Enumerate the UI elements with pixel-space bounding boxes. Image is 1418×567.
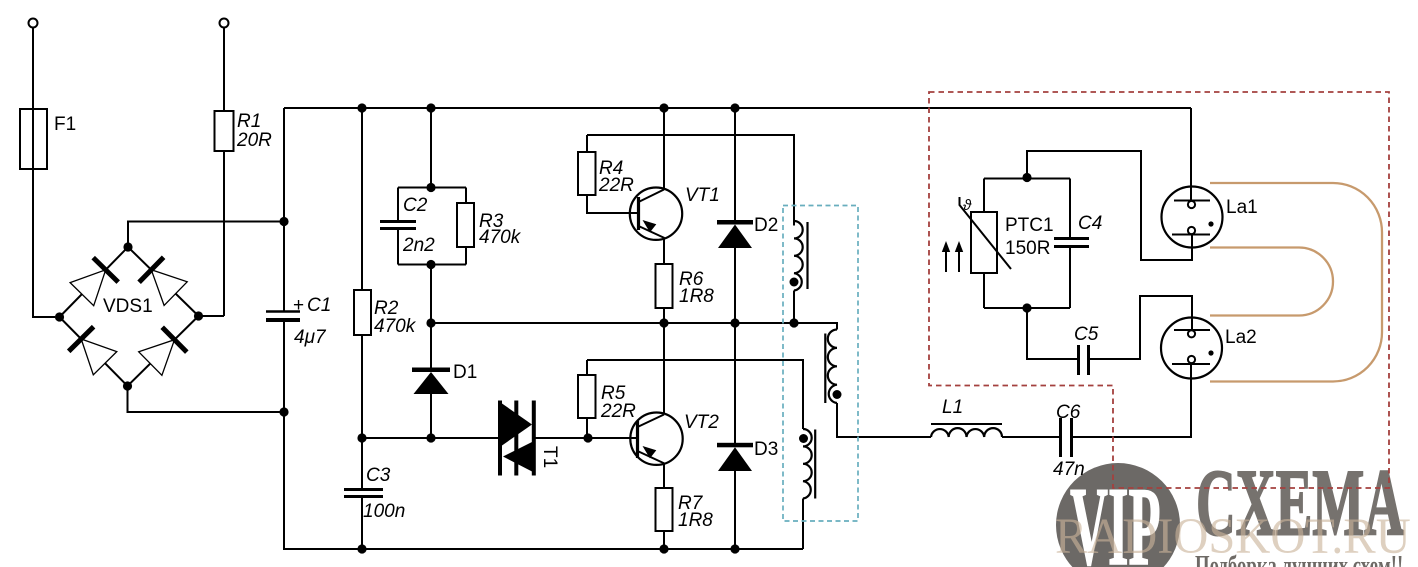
svg-text:La1: La1 (1226, 197, 1258, 218)
svg-text:2n2: 2n2 (402, 235, 435, 256)
svg-text:1R8: 1R8 (678, 510, 713, 531)
svg-text:C4: C4 (1078, 213, 1102, 234)
svg-text:C3: C3 (366, 465, 391, 486)
svg-text:47n: 47n (1053, 459, 1085, 480)
svg-text:C6: C6 (1056, 402, 1081, 423)
svg-text:470k: 470k (479, 227, 522, 248)
svg-text:L1: L1 (942, 397, 963, 418)
svg-text:PTC1: PTC1 (1005, 215, 1054, 236)
svg-text:150R: 150R (1005, 238, 1050, 259)
svg-text:RADIOSKOT.RU: RADIOSKOT.RU (1055, 508, 1411, 564)
svg-text:C1: C1 (307, 295, 331, 316)
svg-text:VT2: VT2 (684, 412, 719, 433)
svg-text:D3: D3 (754, 439, 778, 460)
svg-text:VT1: VT1 (685, 185, 720, 206)
svg-text:4μ7: 4μ7 (294, 327, 327, 348)
svg-text:+: + (293, 295, 304, 316)
svg-text:La2: La2 (1225, 327, 1257, 348)
svg-text:VDS1: VDS1 (103, 296, 153, 317)
svg-text:1R8: 1R8 (679, 286, 714, 307)
svg-text:D2: D2 (754, 215, 778, 236)
svg-text:20R: 20R (236, 130, 272, 151)
svg-text:470k: 470k (374, 316, 417, 337)
svg-text:C5: C5 (1074, 324, 1099, 345)
svg-text:ϑ: ϑ (963, 197, 972, 214)
svg-text:22R: 22R (600, 401, 636, 422)
svg-text:C2: C2 (403, 195, 428, 216)
svg-text:T1: T1 (539, 446, 560, 468)
svg-text:F1: F1 (54, 114, 76, 135)
svg-text:R1: R1 (237, 111, 261, 132)
svg-text:22R: 22R (598, 175, 634, 196)
svg-text:100n: 100n (363, 501, 405, 522)
svg-text:D1: D1 (453, 362, 477, 383)
